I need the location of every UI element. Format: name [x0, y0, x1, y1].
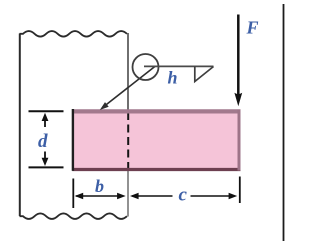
dimension d bottom tick	[29, 166, 64, 168]
svg-text:d: d	[38, 131, 48, 152]
beam bottom edge	[72, 168, 240, 171]
wall top break line (wavy)	[20, 31, 127, 37]
dimension d top tick	[29, 110, 64, 112]
force arrow F head	[234, 93, 242, 106]
dimension b left arrowhead	[75, 193, 84, 200]
wall right edge above beam	[127, 33, 129, 111]
beam left edge (weld line at wall)	[72, 109, 74, 171]
fillet weld symbol (triangle)	[195, 67, 214, 82]
wall right edge hidden behind beam (dashed)	[127, 112, 129, 170]
dimension c line left part	[132, 195, 173, 197]
beam right edge	[238, 110, 241, 171]
weld leader line	[105, 66, 156, 106]
svg-text:h: h	[168, 68, 178, 88]
dimension d down arrow	[44, 152, 46, 160]
svg-text:c: c	[179, 185, 188, 206]
dimension c left arrowhead	[130, 193, 139, 200]
weld reference line	[144, 65, 214, 67]
svg-text:F: F	[246, 18, 259, 38]
weld-all-around circle	[133, 54, 159, 80]
wall left edge	[19, 34, 21, 217]
dimension c line right part	[191, 195, 235, 197]
svg-text:b: b	[95, 176, 104, 196]
force arrow F shaft	[237, 15, 240, 96]
wall bottom break line (wavy)	[20, 213, 127, 219]
beam top edge	[72, 109, 240, 113]
dimension c right arrowhead	[229, 193, 238, 200]
dimension b line	[76, 195, 123, 197]
wall right edge below beam	[127, 171, 129, 217]
weld leader arrowhead	[100, 102, 109, 110]
dimension b right arrowhead	[117, 193, 126, 200]
dimension c right tick	[239, 177, 241, 204]
dimension b left tick	[72, 179, 74, 209]
dimension d up arrow	[44, 120, 46, 128]
figure right border	[283, 4, 285, 241]
beam (pink bar) fill	[74, 111, 240, 170]
